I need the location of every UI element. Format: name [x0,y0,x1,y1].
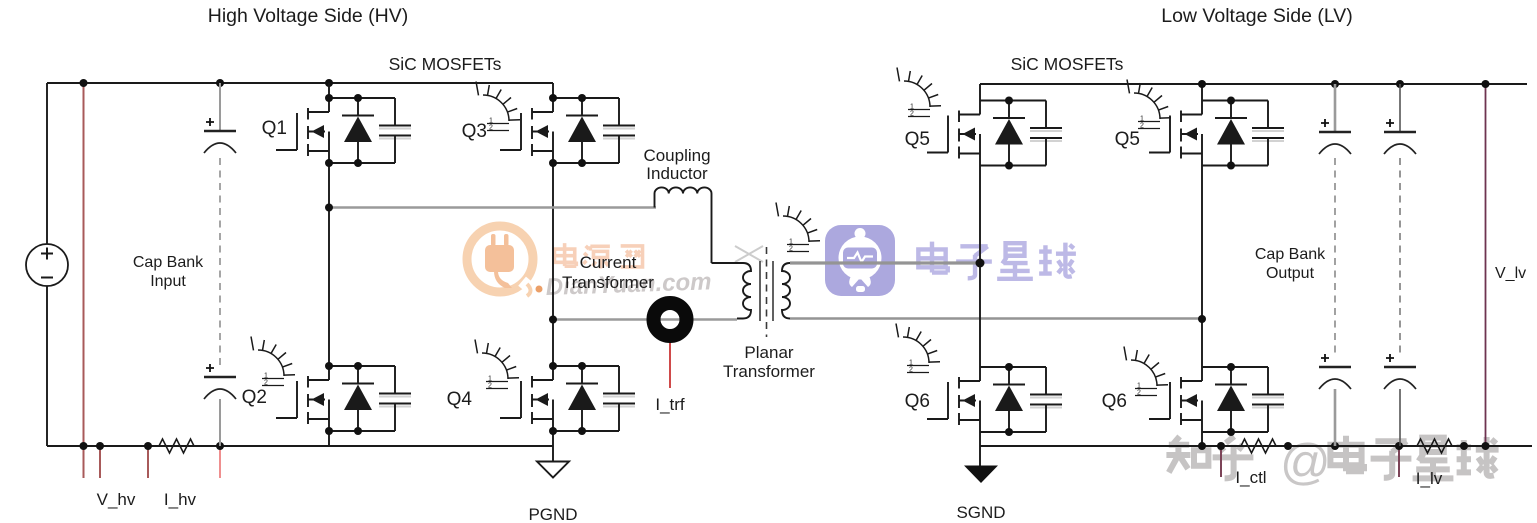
svg-text:Transformer: Transformer [562,273,654,292]
node LV bottom rail / V_lv [1482,442,1490,450]
MOSFET Q6 left [927,363,1062,436]
probe tick V_hv minus [99,446,101,478]
svg-text:I_trf: I_trf [655,395,685,414]
wire source bottom lead [46,286,48,446]
dianzixingqiu purple app icon [825,225,895,296]
cap bank output col2 top capacitor [1384,119,1416,154]
svg-text:Transformer: Transformer [723,362,815,381]
probe line V_hv (full height) [83,83,85,478]
planar transformer secondary winding [782,263,790,319]
node LV top rail / right leg [1198,80,1206,88]
svg-text:Current: Current [580,253,637,272]
HV right leg wires [552,83,554,461]
probe tick I_ctl [1220,446,1222,477]
dianyuan plug icon [485,234,514,288]
wire secondary bottom to LV right leg [790,317,1202,319]
svg-text:Planar: Planar [744,343,793,362]
svg-text:V_hv: V_hv [97,490,136,509]
svg-text:Cap Bank: Cap Bank [1255,246,1326,263]
dianyuan.com orange logo ring [467,226,540,297]
MOSFET Q1 [276,94,411,167]
wire HV right leg mid to transformer [553,318,737,320]
cap bank input bottom lead [219,399,221,446]
MOSFET Q6 right [1149,363,1284,436]
resistor I_lv [1413,439,1456,453]
gauge probe Q5 left [897,68,941,118]
current transformer CT ring [654,303,687,336]
node bottom rail / I_hv [144,442,152,450]
svg-text:I_hv: I_hv [164,490,197,509]
gauge probe Q3 [476,82,520,132]
node bottom rail / V_hv [80,442,88,450]
wire secondary top to LV left leg [790,261,980,264]
svg-text:Q5: Q5 [905,129,930,150]
cap bank input column: top lead [219,83,221,131]
MOSFET Q5 left [927,97,1062,170]
wire HV bridge mid to coupling inductor [329,206,656,208]
node LV bottom rail / cap2 [1395,442,1403,450]
svg-text:Input: Input [150,273,186,290]
PGND symbol [537,462,569,478]
svg-text:Q1: Q1 [262,118,287,139]
node bottom rail / cap bank [216,442,224,450]
cap bank output column 1 top lead [1334,84,1337,132]
gauge probe Q4 [475,340,519,390]
node bottom rail / V_hv minus [96,442,104,450]
svg-text:Coupling: Coupling [643,146,710,165]
gauge probe Q2 [251,337,295,387]
planar transformer primary winding [737,263,751,319]
cap bank output col2 bottom lead [1399,389,1401,446]
MOSFET Q3 [500,94,635,167]
purple 电子星球 watermark text [918,242,1076,279]
probe tick I_hv [147,446,149,478]
gauge probe transformer [776,203,820,253]
svg-text:V_lv: V_lv [1495,265,1526,282]
cap bank output column 2 top lead [1399,84,1401,132]
SGND symbol [964,466,998,484]
probe tick cap bank input [219,448,221,478]
node LV top rail / cap2 [1396,80,1404,88]
svg-text:Output: Output [1266,265,1315,282]
svg-text:I_ctl: I_ctl [1235,468,1266,487]
cap bank output col2 dashed middle [1399,158,1401,356]
node LV top rail / cap1 [1331,80,1339,88]
node LV right leg / secondary bottom [1198,315,1206,323]
svg-text:Low Voltage Side (LV): Low Voltage Side (LV) [1161,5,1353,27]
MOSFET Q2 [276,362,411,435]
svg-text:SiC MOSFETs: SiC MOSFETs [1011,54,1124,74]
probe line V_lv [1485,84,1487,446]
MOSFET Q4 [500,362,635,435]
svg-text:SGND: SGND [956,503,1005,522]
shunt resistor I_hv [155,439,198,453]
svg-text:SiC MOSFETs: SiC MOSFETs [389,54,502,74]
svg-text:High Voltage Side (HV): High Voltage Side (HV) [208,5,409,27]
svg-text:Q6: Q6 [1102,391,1127,412]
LV left leg wires [979,84,981,466]
coupling inductor L1 [655,187,744,263]
probe line I_trf [669,341,671,388]
node LV bottom rail / r2 right [1460,442,1468,450]
faint gray X near transformer core [735,246,763,262]
cap bank output col2 bottom capacitor [1384,354,1416,389]
node LV bottom rail / right leg [1198,442,1206,450]
HV left leg wires [328,83,330,446]
cap bank output col1 top capacitor [1319,119,1351,154]
node LV top rail / V_lv [1482,80,1490,88]
HV bottom rail [47,445,553,447]
svg-text:PGND: PGND [528,505,577,523]
node top rail / Q1 leg [325,79,333,87]
LV top rail [980,83,1527,85]
node LV bottom rail / r1 right [1284,442,1292,450]
svg-text:Q3: Q3 [462,121,487,142]
node top rail / V_hv [80,79,88,87]
gauge probe Q6 left [896,324,940,374]
LV bottom rail [980,445,1532,447]
node top rail / cap bank [216,79,224,87]
cap bank output col1 bottom lead [1334,389,1337,446]
svg-text:Q4: Q4 [447,389,473,410]
cap bank input bottom capacitor [204,364,236,399]
gauge probe Q6 right [1124,347,1168,397]
MOSFET Q5 right [1149,97,1284,170]
DianYuan.com gray italic watermark [536,286,543,293]
node LV bottom rail / cap1 [1331,442,1339,450]
gauge probe Q5 right [1127,80,1171,130]
cap bank input top capacitor [204,118,236,153]
node LV bottom rail / I_ctl [1217,442,1225,450]
LV right leg wires [1201,84,1203,446]
resistor I_ctl [1237,439,1280,453]
probe tick I_lv [1398,446,1400,477]
planar transformer core [760,261,773,321]
orange 电源网 watermark text [554,243,642,268]
svg-text:I_lv: I_lv [1416,469,1443,488]
node LV left leg / secondary top [976,259,985,268]
zhihu @dianzixingqiu gray watermark bottom right [1166,434,1498,490]
cap bank output col1 dashed middle [1334,158,1336,356]
svg-text:Cap Bank: Cap Bank [133,254,204,271]
wire source top lead [46,83,48,244]
node HV right leg mid [549,316,557,324]
svg-text:Q6: Q6 [905,391,930,412]
node HV left leg mid [325,204,333,212]
cap bank output col1 bottom capacitor [1319,354,1351,389]
svg-text:Q2: Q2 [242,387,267,408]
voltage source V1 [26,244,68,286]
cap bank input dashed middle [219,158,221,366]
svg-text:Q5: Q5 [1115,129,1140,150]
svg-text:Inductor: Inductor [646,164,708,183]
HV top rail [47,82,553,84]
